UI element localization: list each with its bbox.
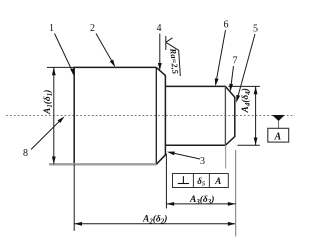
big cylinder chamfer line (155, 67, 157, 164)
svg-text:4: 4 (157, 23, 162, 34)
leader 7 (small chamfer) (231, 66, 233, 85)
svg-text:8: 8 (23, 148, 28, 159)
dimension A3 line (166, 203, 235, 205)
leader 8 (axis / centerline) (31, 121, 60, 149)
perpendicularity symbol (178, 176, 189, 183)
svg-text:A3(δ3): A3(δ3) (189, 194, 214, 206)
dimension A4 line (255, 86, 257, 145)
dimension A2 left extension line (73, 164, 75, 231)
svg-text:5: 5 (253, 24, 258, 35)
dimension A3 arrows (166, 202, 174, 206)
leader 1 (left end face) (55, 34, 73, 72)
leader 4 (big chamfer) (159, 34, 161, 65)
datum A stem (278, 121, 280, 129)
svg-text:A: A (274, 132, 282, 143)
dimension A1 top extension line (47, 66, 74, 68)
svg-text:A2(δ2): A2(δ2) (142, 214, 167, 226)
svg-text:2: 2 (90, 23, 95, 34)
chamfer line extension below (225, 145, 227, 168)
datum A triangle on axis (272, 115, 285, 121)
dimension A2 arrows (74, 222, 82, 226)
dimension A3 left extension line (from shoulder) (165, 154, 167, 209)
dimension A4 bottom extension line (238, 144, 260, 146)
dimension A3 right extension line (from shaft end) (235, 150, 237, 236)
surface roughness symbol Ra=2,5 (166, 36, 181, 76)
perpendicularity tolerance frame (173, 174, 229, 188)
small cylinder chamfer line (224, 86, 226, 145)
leader 2 (big cylinder surface) (96, 34, 113, 63)
dimension A4 top extension line (229, 85, 260, 87)
big cylinder outline (74, 67, 165, 164)
svg-text:7: 7 (233, 56, 238, 67)
svg-text:1: 1 (49, 23, 54, 34)
svg-text:6: 6 (224, 20, 229, 31)
leader 3 (shoulder face) (174, 153, 200, 159)
svg-text:A4(δ4): A4(δ4) (240, 88, 252, 113)
dimension A1 line (53, 67, 55, 164)
datum A box (268, 128, 289, 142)
leader 5 (shaft end face) (238, 34, 255, 96)
svg-text:A1(δ1): A1(δ1) (42, 90, 54, 115)
big cylinder bottom edge (light) (49, 163, 156, 165)
small cylinder outline (165, 86, 234, 145)
leader 6 (small cylinder surface) (217, 30, 226, 80)
svg-text:3: 3 (200, 156, 205, 167)
centerline (shaft axis) (6, 115, 295, 117)
dimension A4 arrows (254, 86, 258, 94)
svg-text:A: A (214, 176, 221, 186)
dimension A2 line (74, 223, 235, 225)
dimension A1 arrows (52, 67, 56, 75)
